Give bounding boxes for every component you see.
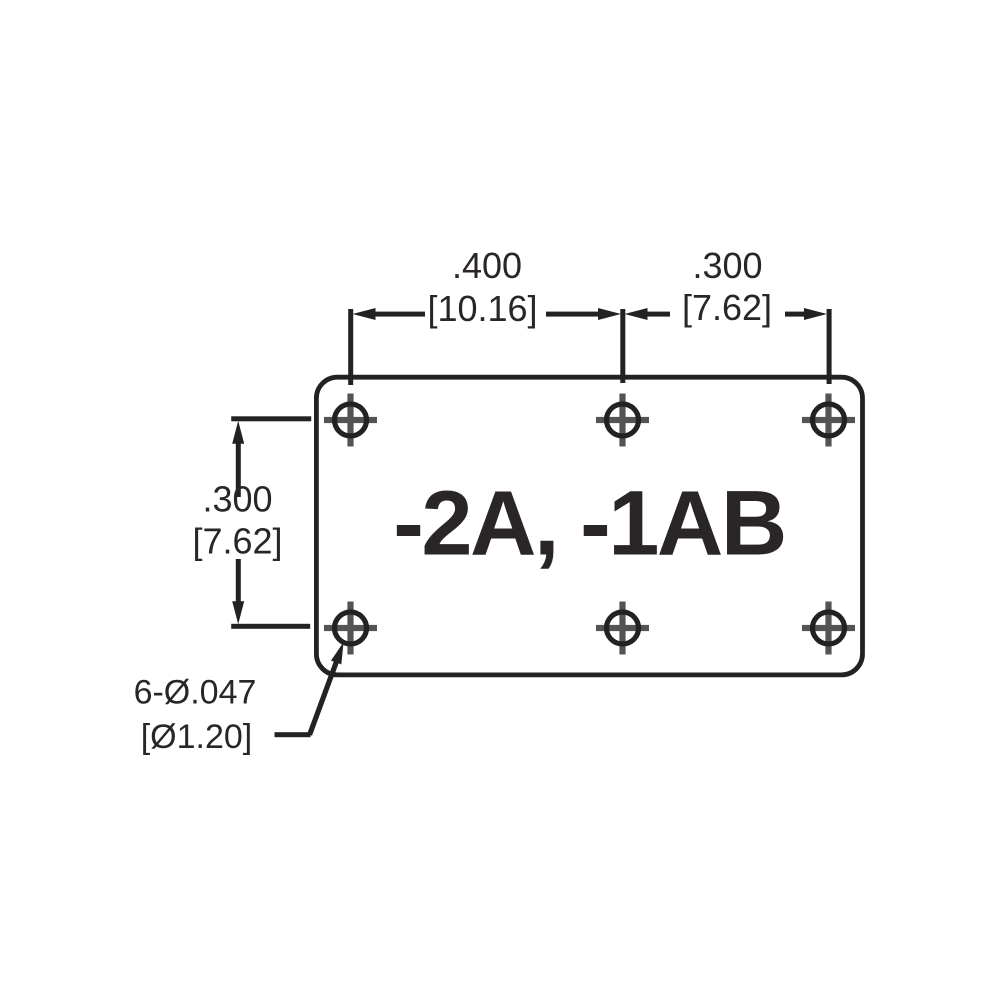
svg-text:.300: .300: [692, 245, 762, 286]
plate outline: [316, 377, 862, 675]
arrow left of .300 top dimension: [625, 308, 648, 320]
hole H6 bottom-right: [802, 602, 855, 655]
arrow right of .400 dimension: [598, 308, 621, 320]
svg-text:[7.62]: [7.62]: [192, 521, 282, 562]
hole H5 bottom-middle: [596, 602, 649, 655]
hole H4 bottom-left: [324, 602, 377, 655]
dimension line left .300 upper segment: [236, 441, 241, 497]
leader arrowhead: [331, 642, 344, 664]
hole H1 top-left: [324, 394, 377, 447]
arrow left of .400 dimension: [353, 308, 376, 320]
hole H2 top-middle: [596, 394, 649, 447]
svg-text:[7.62]: [7.62]: [682, 287, 772, 328]
svg-text:[10.16]: [10.16]: [427, 288, 537, 329]
dimension line left .300 lower segment: [236, 559, 241, 605]
svg-text:.400: .400: [452, 245, 522, 286]
svg-text:[Ø1.20]: [Ø1.20]: [141, 718, 253, 756]
extension line middle (top dimension): [620, 309, 625, 383]
dimension line .300 top left segment: [646, 312, 670, 317]
dimension line .400 left segment: [368, 312, 425, 317]
svg-text:.300: .300: [202, 479, 272, 520]
extension line left (top dimension): [348, 309, 353, 385]
leader line horizontal segment: [275, 732, 311, 737]
arrow down of left .300 dimension: [232, 601, 244, 624]
hole H3 top-right: [802, 394, 855, 447]
dimension line .300 top right segment: [785, 312, 807, 317]
arrow up of left .300 dimension: [232, 421, 244, 444]
arrow right of .300 top dimension: [804, 308, 827, 320]
dimension line .400 right segment: [546, 312, 601, 317]
extension line bottom (left dimension): [231, 624, 310, 629]
svg-text:6-Ø.047: 6-Ø.047: [134, 674, 257, 712]
extension line top (left dimension): [231, 416, 311, 421]
extension line right (top dimension): [827, 309, 832, 384]
leader line diagonal segment: [307, 658, 340, 736]
svg-text:-2A, -1AB: -2A, -1AB: [393, 473, 785, 575]
